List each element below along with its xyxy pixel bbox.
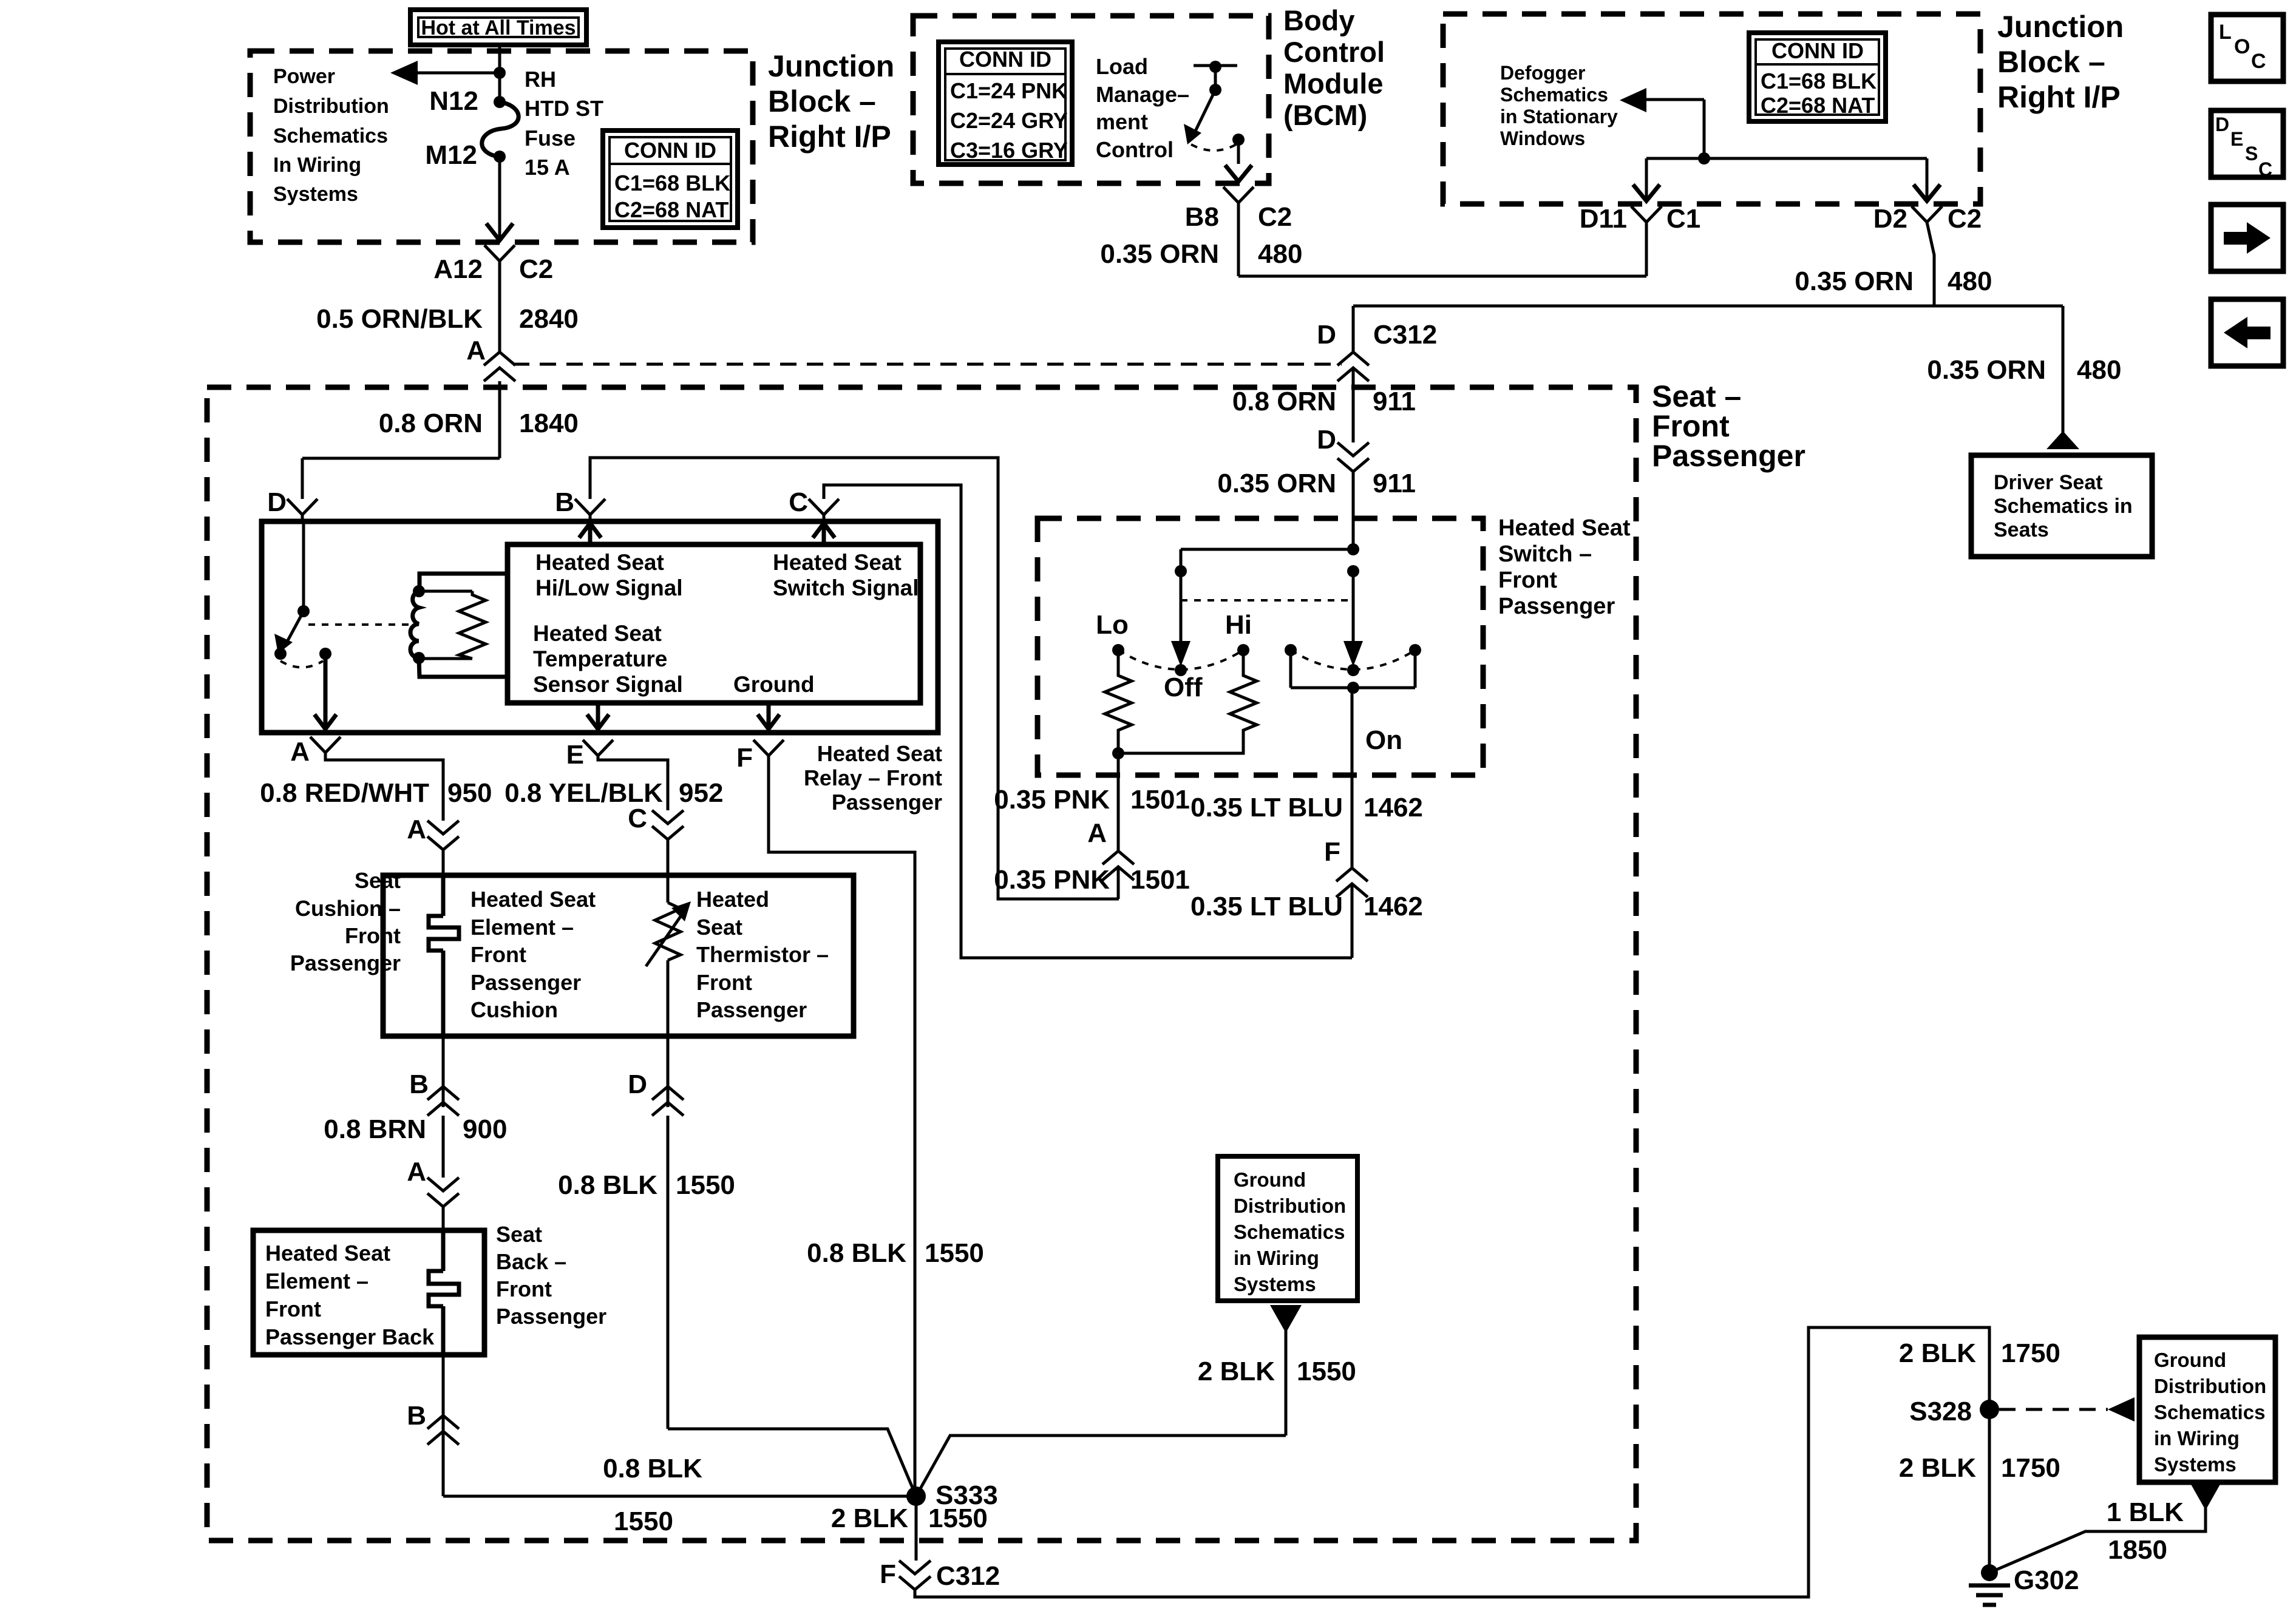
svg-text:950: 950 <box>447 778 492 808</box>
svg-text:Module: Module <box>1283 67 1383 100</box>
wire: drop to D2 <box>1926 158 1929 199</box>
node: right wiper pivot <box>1347 565 1359 577</box>
svg-text:C2: C2 <box>519 254 553 284</box>
body control module (BCM) dashed box <box>913 16 1269 183</box>
svg-text:C: C <box>2258 158 2272 180</box>
connector D2 / C2 <box>1873 204 1982 234</box>
relay pin B arrow <box>579 523 601 544</box>
resistor: Lo <box>1105 650 1132 753</box>
arrow at D11 exit <box>1633 185 1660 201</box>
svg-text:Ground: Ground <box>2154 1349 2226 1371</box>
wire: 0.8 BLK 1550 from thermistor <box>558 1116 916 1496</box>
svg-text:0.35 PNK: 0.35 PNK <box>994 865 1110 895</box>
connector A12 / C2 <box>433 245 553 284</box>
in-line connector A (back element) <box>407 1157 459 1230</box>
svg-text:Defogger: Defogger <box>1500 62 1585 84</box>
svg-text:C2=24 GRY: C2=24 GRY <box>950 108 1068 133</box>
svg-text:911: 911 <box>1373 469 1416 498</box>
svg-text:Power: Power <box>273 65 335 88</box>
svg-text:Cushion: Cushion <box>470 997 558 1022</box>
svg-text:Control: Control <box>1283 36 1385 68</box>
svg-text:F: F <box>1324 837 1340 867</box>
svg-text:1750: 1750 <box>2001 1453 2060 1483</box>
svg-text:0.8 BLK: 0.8 BLK <box>558 1170 657 1200</box>
relay pin C arrow <box>813 523 835 544</box>
svg-text:in Wiring: in Wiring <box>1234 1247 1319 1269</box>
resistor: Hi <box>1118 650 1257 753</box>
svg-text:Hi: Hi <box>1225 610 1252 640</box>
wire: switch On output <box>1351 688 1354 868</box>
svg-text:CONN ID: CONN ID <box>959 47 1051 72</box>
label: 2 BLK 1750 (upper) <box>1899 1338 2060 1368</box>
svg-text:D: D <box>2215 114 2229 135</box>
svg-text:Schematics: Schematics <box>1500 84 1608 106</box>
wire: 2 BLK 1550 from S333 to C312 <box>831 1496 988 1561</box>
svg-text:Passenger: Passenger <box>832 790 942 815</box>
conn id box (junction block top right) <box>1749 33 1886 121</box>
in-line connector A (to seat harness) <box>466 336 515 381</box>
arrow at D2 exit <box>1914 185 1940 201</box>
svg-text:Body: Body <box>1283 4 1355 36</box>
label: Load Management Control <box>1096 54 1189 162</box>
svg-text:HTD ST: HTD ST <box>525 96 603 121</box>
svg-text:Systems: Systems <box>1234 1273 1316 1295</box>
wire: 0.8 BRN 900 <box>324 1114 507 1178</box>
svg-text:0.35 ORN: 0.35 ORN <box>1927 355 2046 385</box>
wire: relay F ground down <box>769 756 915 1496</box>
relay module inner box <box>508 544 920 703</box>
svg-text:Systems: Systems <box>2154 1453 2237 1476</box>
icon: left arrow box <box>2211 299 2283 366</box>
svg-text:Front: Front <box>696 970 752 995</box>
svg-text:O: O <box>2234 35 2250 58</box>
svg-text:Seats: Seats <box>1994 518 2049 541</box>
svg-text:Systems: Systems <box>273 183 358 206</box>
svg-text:Element –: Element – <box>470 915 574 940</box>
svg-text:900: 900 <box>463 1114 507 1144</box>
svg-text:A: A <box>407 1157 426 1187</box>
svg-text:1840: 1840 <box>519 408 579 438</box>
svg-text:Front: Front <box>345 923 401 948</box>
svg-text:Sensor Signal: Sensor Signal <box>533 672 683 697</box>
junction block - right I/P dashed box (top left) <box>250 51 753 242</box>
svg-text:Element –: Element – <box>265 1269 369 1293</box>
svg-text:ment: ment <box>1096 109 1148 134</box>
svg-text:Junction: Junction <box>768 49 894 83</box>
svg-text:15 A: 15 A <box>525 155 570 180</box>
svg-text:E: E <box>566 740 584 770</box>
relay coil <box>410 574 508 677</box>
wire: battery feed from Hot at All Times into fuse <box>498 45 501 102</box>
svg-text:Right I/P: Right I/P <box>1997 80 2121 114</box>
connector F (relay) <box>736 740 784 773</box>
svg-text:1550: 1550 <box>928 1503 988 1533</box>
relay box: Heated Seat Relay - Front Passenger <box>262 521 938 733</box>
svg-text:A12: A12 <box>433 254 483 284</box>
svg-text:D11: D11 <box>1580 204 1627 234</box>
contact: Off wiper <box>1118 650 1243 702</box>
conn id box (junction block top left) <box>603 131 738 228</box>
svg-text:Passenger: Passenger <box>496 1304 606 1329</box>
wire: 0.8 ORN 911 <box>1232 368 1416 442</box>
svg-text:Distribution: Distribution <box>273 95 389 118</box>
connector B (back element out) <box>407 1355 459 1445</box>
in-line connector C (thermistor) <box>628 804 684 875</box>
splice S328 <box>1909 1397 1999 1426</box>
svg-text:Passenger: Passenger <box>1652 439 1805 473</box>
relay pin F arrow <box>758 703 779 729</box>
svg-text:Passenger: Passenger <box>470 970 581 995</box>
svg-text:480: 480 <box>1258 239 1302 269</box>
connector A (relay) <box>290 737 341 767</box>
svg-text:Heated Seat: Heated Seat <box>817 741 942 766</box>
svg-text:Passenger: Passenger <box>290 951 401 975</box>
svg-text:B: B <box>555 487 574 517</box>
svg-text:Fuse: Fuse <box>525 126 576 151</box>
heated seat element box (cushion) <box>383 875 854 1036</box>
wire: 0.35 PNK 1501 from switch <box>994 753 1190 851</box>
connector alignment dashed line C312 <box>513 363 1342 366</box>
arrow at BCM exit <box>1225 165 1252 181</box>
svg-text:On: On <box>1365 725 1402 755</box>
svg-text:Heated Seat: Heated Seat <box>1498 515 1631 541</box>
svg-text:Heated Seat: Heated Seat <box>535 550 664 575</box>
wire: 0.35 LT BLU 1462 lower <box>1190 884 1423 958</box>
svg-text:1550: 1550 <box>676 1170 735 1200</box>
ground G302 <box>1969 1564 2079 1605</box>
svg-text:0.8 ORN: 0.8 ORN <box>379 408 483 438</box>
svg-text:Block –: Block – <box>1997 45 2105 79</box>
svg-text:0.35 LT BLU: 0.35 LT BLU <box>1190 892 1343 921</box>
svg-text:2 BLK: 2 BLK <box>1899 1338 1976 1368</box>
svg-text:911: 911 <box>1373 387 1416 416</box>
defogger junction block dashed box (top right) <box>1443 14 1980 204</box>
wire: 2 BLK 1550 from ground distribution <box>916 1305 1356 1496</box>
svg-text:1462: 1462 <box>1364 892 1423 921</box>
svg-text:Seat: Seat <box>355 868 401 893</box>
svg-text:Schematics: Schematics <box>2154 1401 2265 1423</box>
wire: junction block bus D11 to D2 <box>1646 157 1927 160</box>
wire: switch internal branch to left wiper <box>1181 549 1353 571</box>
svg-text:B8: B8 <box>1185 202 1219 232</box>
label: Junction Block - Right I/P (top left) <box>768 49 894 154</box>
note: Power Distribution Schematics In Wiring Systems <box>273 65 389 206</box>
seat front passenger harness dashed box <box>207 387 1636 1541</box>
contact: Lo <box>1096 610 1129 656</box>
connector D (thermistor out) <box>628 1036 684 1116</box>
icon: DESC box <box>2211 110 2283 180</box>
svg-text:2 BLK: 2 BLK <box>831 1503 908 1533</box>
svg-text:1462: 1462 <box>1364 793 1423 822</box>
svg-text:Block –: Block – <box>768 84 876 118</box>
svg-text:C312: C312 <box>1373 320 1437 350</box>
svg-text:C: C <box>789 487 808 517</box>
svg-text:Front: Front <box>1652 409 1730 443</box>
svg-text:Junction: Junction <box>1997 10 2124 44</box>
svg-text:C1=24 PNK: C1=24 PNK <box>950 78 1067 103</box>
in-line connector D (switch harness) <box>1317 425 1369 472</box>
relay pin A arrow <box>314 654 336 729</box>
wire: 0.35 ORN 911 into switch <box>1217 469 1416 549</box>
arrow to power distribution schematics <box>390 61 500 85</box>
load management control switch in BCM <box>1184 61 1245 164</box>
svg-text:Passenger: Passenger <box>696 997 807 1022</box>
in-line connector F / C312 <box>880 1559 1000 1591</box>
relay switch <box>274 521 410 668</box>
svg-text:0.8 BLK: 0.8 BLK <box>807 1238 906 1268</box>
svg-text:Hot at All Times: Hot at All Times <box>421 16 576 39</box>
wire: D11 down to bus <box>1645 222 1648 276</box>
connector B (relay) <box>555 487 605 521</box>
svg-text:1750: 1750 <box>2001 1338 2060 1368</box>
svg-text:Front: Front <box>265 1297 321 1321</box>
svg-text:Front: Front <box>496 1276 552 1301</box>
svg-text:D2: D2 <box>1873 204 1907 234</box>
note: Defogger Schematics in Stationary Windows <box>1500 62 1618 149</box>
icon: right arrow box <box>2211 205 2283 271</box>
label: RH HTD ST Fuse 15 A <box>525 67 603 180</box>
connector E (relay) <box>566 740 613 770</box>
svg-text:Load: Load <box>1096 54 1148 79</box>
svg-text:C2=68 NAT: C2=68 NAT <box>614 197 729 222</box>
node: left wiper pivot <box>1175 565 1187 577</box>
svg-text:C2=68 NAT: C2=68 NAT <box>1761 93 1875 118</box>
svg-text:0.35 PNK: 0.35 PNK <box>994 785 1110 815</box>
wire: 0.35 ORN 480 to driver seat <box>1927 306 2121 449</box>
svg-text:Control: Control <box>1096 137 1173 162</box>
svg-text:C2: C2 <box>1258 202 1292 232</box>
svg-text:2840: 2840 <box>519 304 579 334</box>
svg-text:Switch Signal: Switch Signal <box>773 575 919 600</box>
conn id box (BCM) <box>939 42 1072 164</box>
svg-text:Driver Seat: Driver Seat <box>1994 471 2103 494</box>
wire: 0.8 ORN 1840 from connector A down into relay D <box>302 381 579 499</box>
svg-text:Back –: Back – <box>496 1249 566 1274</box>
wire: 0.8 YEL/BLK 952 relay E to thermistor <box>504 756 723 810</box>
node: resistor junction <box>1112 747 1124 759</box>
reference box: Ground Distribution Schematics (middle) <box>1218 1156 1357 1301</box>
svg-text:B: B <box>409 1070 429 1099</box>
svg-text:CONN ID: CONN ID <box>624 138 716 163</box>
wire: 0.8 BLK 1550 back element to S333 <box>443 1431 916 1536</box>
svg-text:Distribution: Distribution <box>2154 1375 2266 1397</box>
svg-text:1850: 1850 <box>2108 1535 2167 1565</box>
thermistor: heated seat thermistor - front passenger <box>646 875 829 1036</box>
svg-text:480: 480 <box>1948 266 1992 296</box>
svg-text:C1=68 BLK: C1=68 BLK <box>614 171 730 195</box>
svg-text:G302: G302 <box>2014 1565 2079 1595</box>
arrow at junction block exit <box>486 223 513 240</box>
wire: 0.35 ORN 480 from BCM B8 <box>1100 203 1646 276</box>
icon: LOC box <box>2211 15 2283 81</box>
svg-text:0.8 BRN: 0.8 BRN <box>324 1114 426 1144</box>
svg-text:C1: C1 <box>1666 204 1700 234</box>
connector D11 / C1 <box>1580 204 1701 234</box>
svg-text:C1=68 BLK: C1=68 BLK <box>1761 69 1877 93</box>
label: Seat Back - Front Passenger <box>496 1222 606 1329</box>
svg-text:0.35 LT BLU: 0.35 LT BLU <box>1190 793 1343 822</box>
wire: 0.35 PNK 1501 lower <box>994 865 1190 899</box>
svg-text:Schematics: Schematics <box>1234 1221 1345 1243</box>
reference box: Driver Seat Schematics in Seats <box>1971 455 2152 557</box>
in-line connector F (switch LT BLU) <box>1324 837 1368 897</box>
svg-text:Windows: Windows <box>1500 127 1585 149</box>
svg-text:Cushion –: Cushion – <box>295 896 401 921</box>
svg-text:2 BLK: 2 BLK <box>1198 1357 1275 1386</box>
wire: 0.35 ORN 480 from D2 <box>1353 222 2063 306</box>
svg-text:Right I/P: Right I/P <box>768 120 891 154</box>
label: Heated Seat Relay - Front Passenger <box>804 741 942 815</box>
wire: 1 BLK 1850 from G302 to ground distribution <box>1989 1482 2221 1573</box>
svg-text:0.35 ORN: 0.35 ORN <box>1100 239 1219 269</box>
svg-text:1550: 1550 <box>614 1507 673 1536</box>
heated seat element - front passenger back <box>265 1230 459 1355</box>
wire: 2 BLK 1750 (lower) <box>1899 1409 2060 1568</box>
svg-text:D: D <box>267 487 287 517</box>
label: Junction Block - Right I/P (top right) <box>1997 10 2124 114</box>
svg-text:C: C <box>628 804 647 833</box>
heated seat switch dashed box <box>1038 518 1483 775</box>
svg-text:M12: M12 <box>425 140 477 170</box>
svg-text:F: F <box>880 1559 896 1589</box>
svg-text:Lo: Lo <box>1096 610 1129 640</box>
wire: D drop from junction block to switch <box>1317 306 1437 352</box>
label: Heated Seat Switch - Front Passenger <box>1498 515 1631 619</box>
in-line connector D / C312 <box>1337 352 1369 381</box>
svg-text:A: A <box>1087 818 1107 848</box>
connector B (cushion element out) <box>409 1036 459 1116</box>
label box: Hot at All Times <box>410 10 586 45</box>
svg-text:Seat: Seat <box>696 915 742 940</box>
left wiper arm with arrow <box>1171 571 1190 666</box>
svg-text:Schematics in: Schematics in <box>1994 495 2133 518</box>
svg-text:Manage–: Manage– <box>1096 82 1189 107</box>
svg-text:Ground: Ground <box>733 672 815 697</box>
svg-text:C312: C312 <box>936 1561 1000 1591</box>
reference box: Ground Distribution Schematics (bottom right) <box>2139 1337 2275 1482</box>
svg-text:Passenger: Passenger <box>1498 594 1615 619</box>
svg-text:480: 480 <box>2077 355 2121 385</box>
svg-text:B: B <box>407 1401 426 1431</box>
svg-text:Front: Front <box>1498 568 1557 593</box>
arrow to defogger schematics <box>1620 88 1704 158</box>
svg-text:Relay – Front: Relay – Front <box>804 765 942 790</box>
svg-text:in Stationary: in Stationary <box>1500 106 1618 127</box>
dashed reference link from S328 <box>1999 1397 2135 1422</box>
svg-text:E: E <box>2230 128 2243 150</box>
relay pin E arrow <box>587 703 609 729</box>
node: feed junction dot <box>494 67 506 79</box>
svg-text:D: D <box>628 1070 647 1099</box>
svg-text:Hi/Low Signal: Hi/Low Signal <box>535 575 683 600</box>
svg-text:1501: 1501 <box>1130 785 1190 815</box>
svg-text:Heated Seat: Heated Seat <box>773 550 902 575</box>
node: switch feed junction <box>1347 543 1359 555</box>
right wiper arm with arrow <box>1343 571 1363 666</box>
svg-text:Schematics: Schematics <box>273 124 388 147</box>
link: wiper gang dashed <box>1181 599 1353 602</box>
svg-text:0.5 ORN/BLK: 0.5 ORN/BLK <box>316 304 483 334</box>
wire: fuse output down to box edge <box>498 157 501 238</box>
svg-text:Thermistor –: Thermistor – <box>696 942 829 967</box>
svg-text:D: D <box>1317 425 1336 455</box>
svg-text:in Wiring: in Wiring <box>2154 1427 2240 1449</box>
svg-text:A: A <box>466 336 486 365</box>
svg-text:0.35 ORN: 0.35 ORN <box>1795 266 1914 296</box>
in-line connector A (cushion element) <box>407 815 459 875</box>
in-line connector A (switch PNK) <box>1087 818 1134 880</box>
svg-text:Heated Seat: Heated Seat <box>533 621 662 646</box>
label: Seat - Front Passenger <box>1652 379 1805 473</box>
svg-text:L: L <box>2219 21 2232 44</box>
svg-text:Seat –: Seat – <box>1652 379 1741 413</box>
label: Seat Cushion - Front Passenger <box>290 868 401 975</box>
svg-text:1501: 1501 <box>1130 865 1190 895</box>
svg-text:0.35 ORN: 0.35 ORN <box>1217 469 1336 498</box>
wire: drop to D11 <box>1645 158 1648 199</box>
svg-text:0.8 ORN: 0.8 ORN <box>1232 387 1336 416</box>
wire: relay C riser to LT BLU switch signal <box>824 485 1352 958</box>
fuse RH HTD ST 15 A <box>482 96 518 163</box>
svg-text:C3=16 GRY: C3=16 GRY <box>950 138 1068 163</box>
svg-text:2 BLK: 2 BLK <box>1899 1453 1976 1483</box>
svg-text:1 BLK: 1 BLK <box>2107 1497 2184 1527</box>
svg-text:Distribution: Distribution <box>1234 1195 1346 1217</box>
connector B8 / C2 <box>1185 187 1292 232</box>
svg-text:(BCM): (BCM) <box>1283 99 1367 131</box>
svg-text:N12: N12 <box>429 86 478 116</box>
svg-text:0.8 RED/WHT: 0.8 RED/WHT <box>260 778 429 808</box>
svg-text:Front: Front <box>470 942 526 967</box>
svg-text:A: A <box>407 815 426 844</box>
wire: 0.8 RED/WHT 950 relay A to cushion element <box>260 753 492 821</box>
svg-text:In Wiring: In Wiring <box>273 154 361 177</box>
relay coil resistor <box>419 591 486 659</box>
svg-text:CONN ID: CONN ID <box>1771 38 1864 63</box>
svg-text:0.8 BLK: 0.8 BLK <box>603 1454 702 1483</box>
svg-text:Heated Seat: Heated Seat <box>265 1241 390 1266</box>
wire: ground run to G302 column <box>915 1327 1989 1597</box>
connector D (relay) <box>267 487 318 521</box>
svg-text:C: C <box>2251 50 2266 73</box>
label: 0.35 LT BLU 1462 <box>1190 793 1423 822</box>
contact: Hi <box>1225 610 1252 656</box>
label: Body Control Module (BCM) <box>1283 4 1385 131</box>
svg-text:S328: S328 <box>1909 1397 1972 1426</box>
heated seat element - front passenger cushion <box>429 875 596 1036</box>
svg-text:Temperature: Temperature <box>533 646 667 671</box>
svg-text:Ground: Ground <box>1234 1168 1306 1191</box>
heated seat element box (back) <box>253 1230 484 1355</box>
svg-text:C2: C2 <box>1948 204 1982 234</box>
node: defogger feed dot <box>1698 152 1710 164</box>
wire: 0.5 ORN/BLK 2840 <box>316 261 579 352</box>
svg-text:A: A <box>290 737 310 767</box>
svg-text:Heated Seat: Heated Seat <box>470 887 596 912</box>
svg-text:1550: 1550 <box>1297 1357 1356 1386</box>
label: 0.8 BLK 1550 (relay ground wire) <box>807 1238 984 1268</box>
svg-text:D: D <box>1317 320 1336 350</box>
right switch contacts <box>1285 644 1421 694</box>
connector C (relay) <box>789 487 839 521</box>
svg-text:Seat: Seat <box>496 1222 542 1247</box>
splice S333 <box>906 1480 998 1510</box>
wire: relay B riser to PNK hi/low signal <box>590 458 1119 899</box>
svg-text:S: S <box>2245 143 2258 164</box>
svg-text:RH: RH <box>525 67 556 92</box>
svg-text:Off: Off <box>1164 673 1203 702</box>
svg-text:Switch –: Switch – <box>1498 541 1592 567</box>
